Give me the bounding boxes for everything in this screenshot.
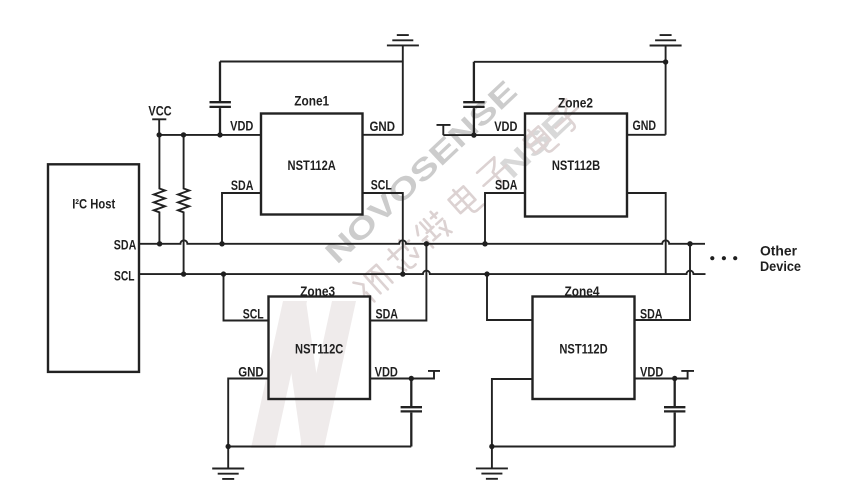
node U3 SCL on SCL bus <box>221 271 226 276</box>
wire return zone4 <box>492 446 675 448</box>
node U2 SDA on SDA bus <box>482 241 487 246</box>
power VCC symbol <box>152 119 166 135</box>
wire U4 GND down <box>492 379 533 468</box>
wire SDA bus <box>139 240 705 243</box>
wire U3 SDA to bus <box>370 244 426 321</box>
node ground2 rail junction <box>663 59 668 64</box>
wire U1 SDA to bus <box>222 193 261 244</box>
op box U1 NST112A <box>261 114 363 215</box>
wire U3 GND down <box>228 379 268 469</box>
svg-text:SCL: SCL <box>243 307 264 322</box>
svg-text:Device: Device <box>760 259 801 274</box>
capacitor C3 <box>401 379 422 447</box>
svg-text:SCL: SCL <box>371 178 392 193</box>
svg-text:GND: GND <box>370 119 396 134</box>
resistor R1 <box>154 135 165 244</box>
wire top rail zone2 <box>474 61 666 63</box>
wire U4 VDD and power stub <box>635 371 695 379</box>
svg-text:VDD: VDD <box>375 365 398 380</box>
capacitor C4 <box>664 379 685 447</box>
svg-text:SDA: SDA <box>231 178 254 193</box>
node zone3 ground junction <box>226 444 231 449</box>
resistor R2 <box>178 135 189 274</box>
op box U2 NST112B <box>525 114 627 217</box>
svg-text:Zone2: Zone2 <box>558 96 593 111</box>
svg-text:SDA: SDA <box>640 307 663 322</box>
power stub zone2 VDD <box>437 125 526 135</box>
wire top rail zone1 <box>220 61 403 63</box>
svg-text:Zone1: Zone1 <box>294 94 329 109</box>
svg-text:SDA: SDA <box>376 307 399 322</box>
svg-text:SDA: SDA <box>495 178 518 193</box>
node C1 / VDD rail junction <box>217 132 222 137</box>
node U1 SCL on SCL bus <box>400 271 405 276</box>
node R1 on SDA bus <box>157 241 162 246</box>
node C3 / U3 VDD junction <box>409 376 414 381</box>
svg-text:GND: GND <box>238 365 264 380</box>
watermark text chinese (stylized strokes) <box>353 97 586 303</box>
node U1 SDA on SDA bus <box>219 241 224 246</box>
svg-text:Zone3: Zone3 <box>300 284 335 299</box>
ground GND1 top <box>387 35 419 135</box>
wire U2 GND pin <box>627 134 666 136</box>
svg-text:I²C Host: I²C Host <box>72 197 115 212</box>
op box U3 NST112C <box>269 297 371 400</box>
svg-text:NST112D: NST112D <box>559 342 607 357</box>
node VCC / R1 junction <box>157 132 162 137</box>
wire U2 SCL to bus <box>627 193 666 274</box>
node R2 on SCL bus <box>181 271 186 276</box>
node C2 / U2 VDD junction <box>471 132 476 137</box>
wire U1 SCL to bus <box>363 193 403 274</box>
node zone4 ground junction <box>489 444 494 449</box>
svg-text:SDA: SDA <box>114 238 137 253</box>
svg-text:SCL: SCL <box>114 269 135 284</box>
I2C Host box <box>48 164 139 372</box>
wire U2 SDA to bus <box>485 193 525 244</box>
ellipsis dot 2 <box>722 256 726 260</box>
op box U4 NST112D <box>533 297 635 400</box>
ellipsis dot 3 <box>733 256 737 260</box>
svg-text:NST112B: NST112B <box>552 158 600 173</box>
svg-text:VDD: VDD <box>494 119 517 134</box>
wire U3 VDD and power stub <box>370 371 440 379</box>
wire VCC rail to VDD pin U1 <box>159 134 261 136</box>
capacitor C1 <box>210 62 231 135</box>
wire U4 SDA to bus <box>635 244 691 320</box>
ground GND4 bottom <box>476 468 508 478</box>
ground GND3 bottom <box>212 469 244 479</box>
svg-text:VDD: VDD <box>640 365 663 380</box>
ground GND2 top <box>650 35 682 135</box>
svg-text:NST112A: NST112A <box>288 158 336 173</box>
node U4 SDA on SDA bus <box>687 241 692 246</box>
svg-text:Other: Other <box>760 243 798 258</box>
watermark logo big N <box>251 301 356 448</box>
wire U4 SCL from bus <box>487 274 533 320</box>
wire U3 SCL from bus <box>224 274 269 320</box>
capacitor C2 <box>463 62 484 135</box>
wire return zone3 <box>228 446 411 448</box>
ellipsis dot 1 <box>710 256 714 260</box>
svg-text:Zone4: Zone4 <box>565 284 600 299</box>
wire SCL bus <box>139 271 706 274</box>
node R2 top junction <box>181 132 186 137</box>
svg-text:VCC: VCC <box>148 104 171 119</box>
svg-text:NST112C: NST112C <box>295 342 343 357</box>
wire U1 GND pin <box>363 134 403 136</box>
node U3 SDA on SDA bus <box>424 241 429 246</box>
node U4 SCL on SCL bus <box>484 271 489 276</box>
svg-text:GND: GND <box>633 118 657 133</box>
node C4 / U4 VDD junction <box>672 376 677 381</box>
svg-text:VDD: VDD <box>230 119 253 134</box>
